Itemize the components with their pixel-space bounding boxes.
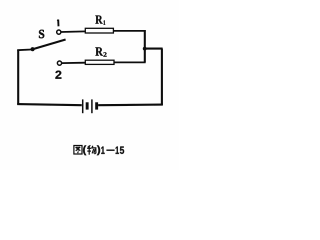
node 1 (switch contact circle) (57, 30, 61, 34)
wire: right vertical (161, 49, 163, 106)
resistor R2 (85, 60, 114, 64)
caption glyph: CJK tu (picture) (74, 146, 82, 155)
caption: figure number 1 (101, 147, 104, 154)
junction at branch and mid vertical (143, 47, 147, 51)
label S (39, 30, 44, 38)
resistor R1 (85, 28, 113, 33)
label R2 (95, 47, 106, 56)
wire: bottom left (left vertical to battery) (17, 104, 82, 105)
wire: pole stub (left vertical to switch pivot) (17, 49, 31, 52)
label R1 (95, 16, 105, 25)
wire: R2 to mid vertical (114, 61, 146, 63)
switch S blade (33, 40, 66, 50)
wire: mid vertical (R1 right end down to R2 right end) (144, 30, 146, 62)
caption glyph: CJK wu (object) (87, 145, 96, 154)
label 2 (pin number) (55, 71, 61, 79)
caption: figure number 15 (116, 147, 125, 154)
caption: close paren (97, 145, 100, 155)
wire: node 1 to R1 (61, 30, 86, 33)
wire: node 2 to R2 (62, 62, 86, 64)
wire: branch from mid junction to right vertical (144, 48, 163, 50)
battery B1 (83, 99, 98, 113)
label 1 (pin number) (57, 20, 58, 27)
wire: bottom right (battery to right vertical) (98, 104, 163, 107)
wire: left vertical (17, 50, 19, 105)
caption: em dash (106, 150, 114, 151)
wire: R1 to mid vertical (113, 30, 145, 32)
node 2 (switch contact circle) (57, 61, 61, 65)
caption: open paren (83, 145, 86, 155)
switch S pivot junction (30, 47, 34, 51)
